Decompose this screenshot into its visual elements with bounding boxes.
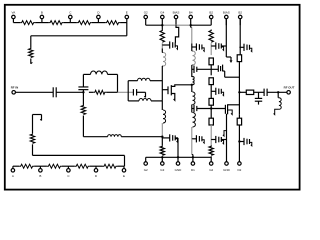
- svg-text:G4: G4: [160, 11, 164, 15]
- svg-text:BIAS: BIAS: [223, 11, 230, 15]
- svg-text:G2: G2: [144, 11, 148, 15]
- svg-text:RF IN: RF IN: [11, 86, 19, 90]
- svg-text:B: B: [41, 11, 43, 15]
- svg-text:D2: D2: [237, 168, 241, 172]
- svg-text:BIAS: BIAS: [173, 11, 180, 15]
- svg-text:RF OUT: RF OUT: [284, 86, 295, 90]
- svg-text:GND: GND: [223, 168, 231, 172]
- svg-text:B4: B4: [189, 11, 193, 15]
- svg-text:D1: D1: [191, 168, 195, 172]
- svg-text:G3: G3: [160, 168, 164, 172]
- svg-text:B: B: [39, 174, 41, 178]
- svg-text:G2: G2: [209, 168, 213, 172]
- svg-text:E: E: [126, 11, 128, 15]
- svg-text:GND: GND: [175, 168, 183, 172]
- svg-text:E: E: [123, 174, 125, 178]
- svg-text:VA: VA: [12, 11, 16, 15]
- svg-text:B2: B2: [209, 11, 213, 15]
- svg-text:B2: B2: [238, 11, 242, 15]
- svg-text:A: A: [12, 174, 14, 178]
- svg-text:G2: G2: [144, 168, 148, 172]
